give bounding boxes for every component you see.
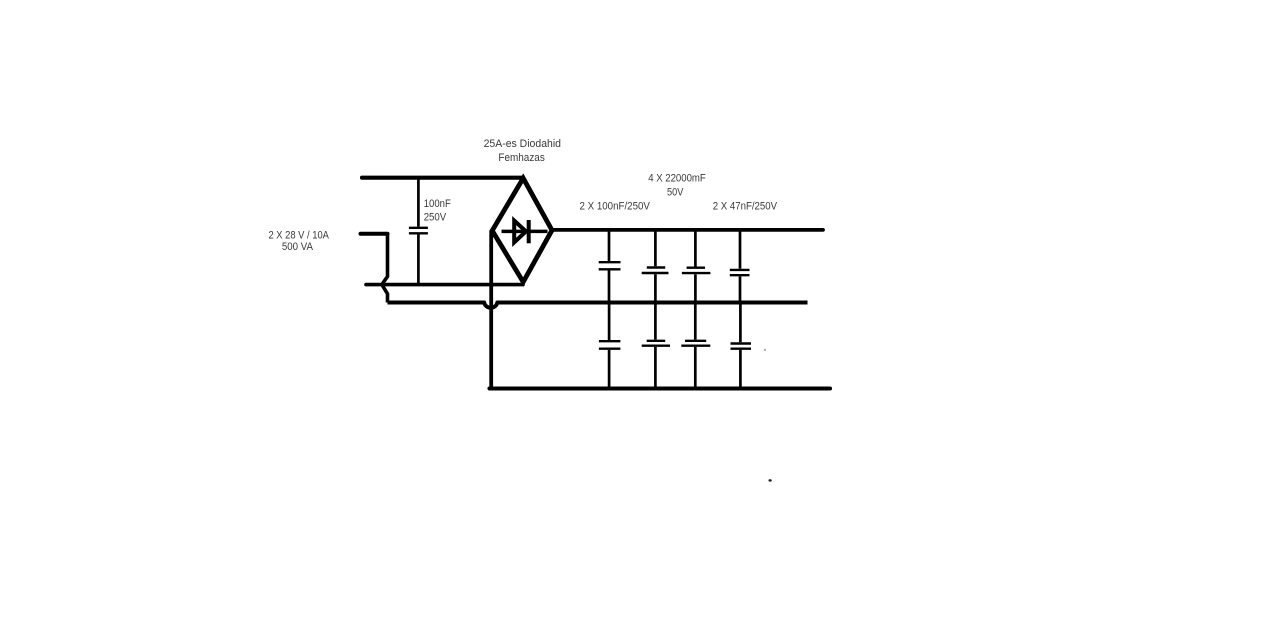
svg-text:50V: 50V (667, 187, 684, 199)
svg-text:2 X 47nF/250V: 2 X 47nF/250V (713, 200, 778, 212)
wire negative: bridge left vertex down to bottom rail (489, 231, 493, 389)
svg-text:250V: 250V (424, 212, 447, 224)
svg-text:25A-es Diodahid: 25A-es Diodahid (484, 138, 561, 150)
svg-text:Femhazas: Femhazas (498, 152, 545, 164)
bridge diode symbol: cathode bar (527, 220, 531, 243)
wire AC2 (transformer to bridge bottom vertex) (366, 283, 523, 287)
wire mid rail (center tap to capacitor midpoint, hop at x=490) (388, 303, 808, 308)
capacitor C5 47nF top row col4 (730, 230, 750, 303)
svg-text:100nF: 100nF (424, 198, 451, 210)
capacitor C7 22000mF bottom row col2 (642, 303, 670, 389)
wire top DC rail (552, 228, 823, 232)
capacitor C8 22000mF bottom row col3 (681, 303, 710, 389)
stray faint dot near C9 (764, 349, 766, 351)
wire center-tap stub (361, 232, 388, 236)
svg-text:2 X 28 V / 10A: 2 X 28 V / 10A (268, 230, 329, 242)
svg-text:4 X 22000mF: 4 X 22000mF (648, 173, 706, 185)
svg-text:500 VA: 500 VA (282, 241, 313, 253)
stray dark dot below schematic (769, 479, 772, 481)
wire center-tap vertical with hop over AC2 (383, 234, 388, 303)
wire AC1 top (transformer to bridge top vertex) (362, 176, 522, 180)
capacitor C1 100nF/250V across AC (409, 178, 428, 285)
bridge rectifier B1 diamond (492, 178, 552, 282)
wire bottom rail (490, 386, 831, 390)
bridge diode symbol: triangle outline (514, 221, 526, 243)
capacitor C6 100nF bottom row col1 (599, 303, 621, 389)
capacitor C9 47nF bottom row col4 (731, 303, 752, 389)
bridge diode symbol: axis line (502, 230, 548, 234)
capacitor C4 22000mF top row col3 (682, 230, 711, 303)
capacitor C2 100nF top row col1 (599, 230, 621, 303)
capacitor C3 22000mF top row col2 (642, 230, 669, 303)
svg-text:2 X 100nF/250V: 2 X 100nF/250V (580, 200, 651, 212)
